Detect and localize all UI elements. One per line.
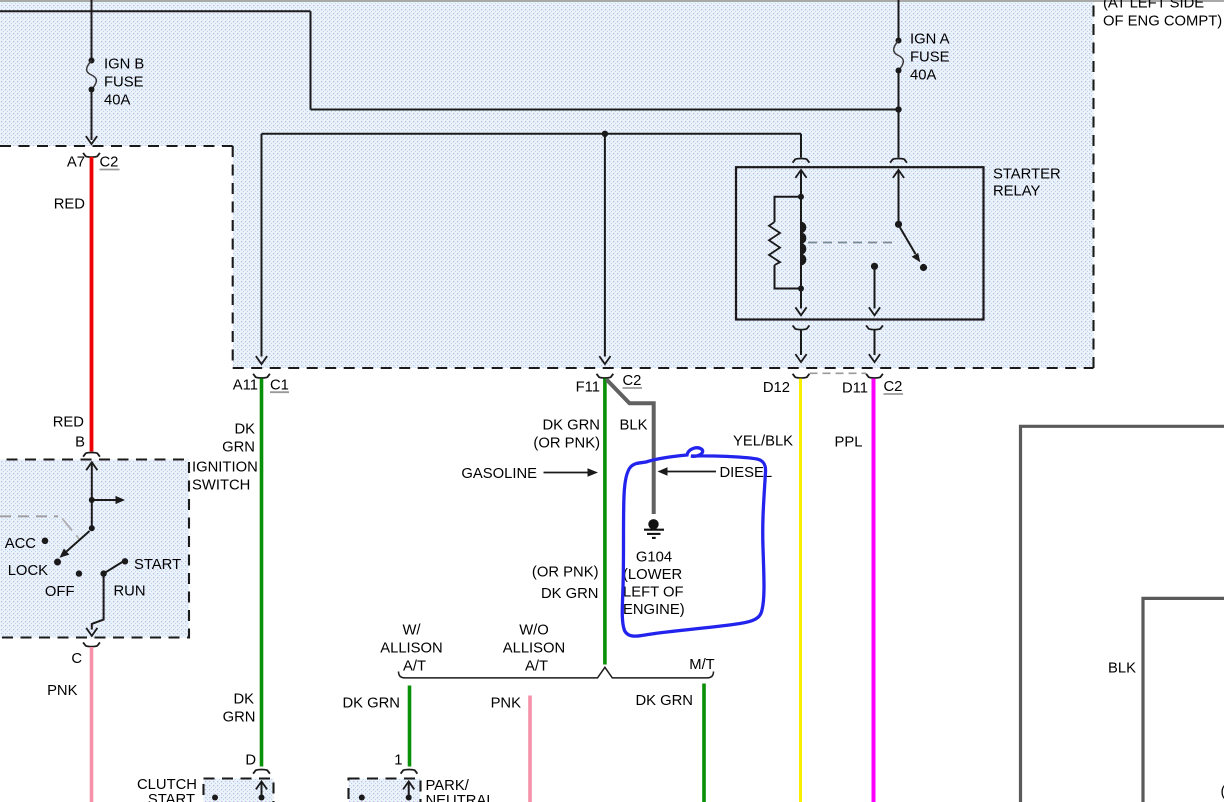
svg-text:RED: RED bbox=[53, 415, 84, 431]
relay bottom connector D12 side bbox=[793, 325, 810, 329]
svg-text:DK GRN: DK GRN bbox=[542, 418, 600, 434]
svg-text:STARTER: STARTER bbox=[993, 167, 1061, 183]
svg-text:FUSE: FUSE bbox=[910, 50, 950, 66]
svg-text:A/T: A/T bbox=[403, 659, 426, 675]
wire DK GRN branch (M/T) bbox=[702, 684, 706, 802]
svg-text:DK: DK bbox=[234, 422, 255, 438]
svg-text:ACC: ACC bbox=[5, 536, 37, 552]
wire YEL from D12 down bbox=[799, 379, 802, 802]
connector A11 C1 bbox=[253, 374, 270, 378]
svg-text:IGN B: IGN B bbox=[104, 57, 144, 73]
svg-text:ENGINE): ENGINE) bbox=[623, 602, 685, 618]
svg-text:B: B bbox=[75, 435, 85, 451]
feed arrow to accessories bbox=[92, 499, 116, 501]
fuse IGN A FUSE 40A bbox=[894, 32, 950, 84]
wire: drop to A11 bbox=[261, 134, 263, 357]
branch brace bbox=[399, 667, 714, 678]
wire: IGN B feed from top bbox=[91, 0, 93, 61]
svg-text:D11: D11 bbox=[842, 381, 868, 397]
svg-text:(OR PNK): (OR PNK) bbox=[532, 565, 599, 581]
svg-text:IGN A: IGN A bbox=[910, 32, 950, 48]
wire: IGN A feed from top bbox=[898, 0, 900, 41]
junction F11 drop bbox=[602, 131, 608, 137]
svg-text:START: START bbox=[134, 557, 181, 573]
connector A7 C2 bbox=[83, 153, 100, 157]
svg-text:CLUTCH: CLUTCH bbox=[137, 777, 197, 793]
component box outline right bbox=[1021, 426, 1224, 802]
underhood fuse block interior fill bbox=[0, 0, 1094, 368]
connector D11 C2 bbox=[866, 374, 883, 378]
wire RED A7 to ignition switch B bbox=[90, 157, 94, 452]
svg-text:(LOWER: (LOWER bbox=[623, 567, 682, 583]
relay actuation dashed link bbox=[808, 242, 894, 244]
rotor pivot bbox=[89, 525, 95, 531]
svg-text:ALLISON: ALLISON bbox=[380, 641, 443, 657]
svg-text:GASOLINE: GASOLINE bbox=[461, 466, 537, 482]
connector into relay, switch pin bbox=[890, 159, 907, 163]
svg-text:C2: C2 bbox=[100, 155, 119, 171]
svg-text:C1: C1 bbox=[270, 378, 289, 394]
connector D12 bbox=[793, 374, 810, 378]
top edge line bbox=[0, 0, 1224, 2]
clutch start switch box bbox=[204, 779, 274, 802]
relay switch pin arrow (into box) bbox=[893, 170, 904, 178]
ignition switch internals bbox=[0, 462, 181, 636]
position contacts bbox=[42, 538, 49, 545]
relay bottom connector D11 side bbox=[866, 325, 883, 329]
wire: bus y=109.5 to IGN A bbox=[311, 109, 899, 111]
svg-text:M/T: M/T bbox=[689, 657, 714, 673]
svg-text:PNK: PNK bbox=[491, 696, 522, 712]
svg-text:D12: D12 bbox=[763, 380, 790, 396]
resistor (relay coil suppression), parallel branch bbox=[775, 197, 802, 289]
svg-text:IGNITION: IGNITION bbox=[192, 460, 258, 476]
svg-text:(: ( bbox=[1221, 784, 1224, 800]
svg-text:NEUTRAL: NEUTRAL bbox=[426, 793, 495, 802]
wire: IGN B fuse output down to A7 bbox=[91, 90, 93, 141]
input arrow from B bbox=[86, 462, 97, 470]
svg-text:GRN: GRN bbox=[222, 440, 255, 456]
svg-text:(OR PNK): (OR PNK) bbox=[533, 436, 600, 452]
svg-text:40A: 40A bbox=[910, 68, 936, 84]
svg-text:F11: F11 bbox=[576, 380, 600, 396]
label (AT LEFT SIDE / OF ENG COMPT) bbox=[1103, 0, 1222, 30]
svg-text:FUSE: FUSE bbox=[104, 75, 144, 91]
wire: drop to relay coil pin bbox=[800, 134, 802, 158]
svg-text:C: C bbox=[71, 651, 82, 667]
svg-text:START: START bbox=[148, 792, 195, 802]
svg-text:40A: 40A bbox=[104, 93, 130, 109]
ground G104 bbox=[623, 519, 685, 618]
svg-text:DK GRN: DK GRN bbox=[635, 693, 693, 709]
svg-text:OFF: OFF bbox=[45, 584, 75, 600]
junction at IGN A wire bbox=[895, 106, 901, 112]
wire: coil to D12 pin bbox=[800, 289, 802, 309]
svg-text:LEFT OF: LEFT OF bbox=[623, 585, 684, 601]
park/neutral position switch box bbox=[349, 779, 421, 802]
wire: IGN A fuse output down to relay bbox=[898, 71, 900, 158]
wire DK GRN from A11 down to D bbox=[260, 379, 264, 767]
relay switch contact (NO throw) bbox=[920, 264, 927, 271]
svg-text:GRN: GRN bbox=[223, 710, 256, 726]
svg-text:PNK: PNK bbox=[47, 683, 78, 699]
svg-text:LOCK: LOCK bbox=[8, 563, 48, 579]
svg-text:RED: RED bbox=[54, 197, 85, 213]
starter relay interior fill bbox=[736, 167, 984, 319]
gray detent dashes bbox=[0, 515, 58, 517]
svg-text:(AT LEFT SIDE: (AT LEFT SIDE bbox=[1103, 0, 1204, 12]
relay coil pin arrow (into box) bbox=[795, 170, 806, 178]
wire PPL from D11 down bbox=[872, 379, 876, 802]
svg-text:1: 1 bbox=[394, 753, 402, 769]
relay coil (bumps) bbox=[801, 222, 806, 265]
blue pen annotation around G104 bbox=[622, 448, 765, 636]
wire BLK from F11 to ground bbox=[607, 380, 654, 515]
svg-text:DK: DK bbox=[233, 692, 254, 708]
svg-text:OF ENG COMPT): OF ENG COMPT) bbox=[1103, 14, 1222, 30]
rotor arm toward LOCK bbox=[67, 531, 90, 552]
svg-text:BLK: BLK bbox=[620, 418, 648, 434]
wire PNK from C down bbox=[90, 647, 94, 802]
svg-text:RELAY: RELAY bbox=[993, 184, 1041, 200]
svg-text:PARK/: PARK/ bbox=[426, 778, 470, 794]
wire DK GRN branch (W/ Allison) bbox=[408, 686, 412, 767]
svg-text:SWITCH: SWITCH bbox=[192, 478, 250, 494]
relay switch arm bbox=[900, 228, 916, 255]
wire: top bus y=11 bbox=[0, 10, 311, 12]
svg-text:W/O: W/O bbox=[519, 623, 549, 639]
wire: coil feed bus y=133.8 bbox=[262, 133, 802, 135]
svg-text:RUN: RUN bbox=[114, 584, 146, 600]
svg-text:ALLISON: ALLISON bbox=[503, 641, 566, 657]
wire DK GRN (OR PNK) from F11 down bbox=[603, 379, 607, 665]
relay output contact to D11 bbox=[871, 263, 878, 270]
svg-text:YEL/BLK: YEL/BLK bbox=[733, 434, 793, 450]
relay switch pivot bbox=[895, 221, 902, 228]
svg-text:DK GRN: DK GRN bbox=[342, 696, 400, 712]
dashed connector tie D12-D11 bbox=[810, 372, 867, 374]
svg-text:A/T: A/T bbox=[525, 659, 548, 675]
wire: drop to F11 bbox=[604, 134, 606, 357]
svg-text:A7: A7 bbox=[67, 155, 85, 171]
inner component box outline right bbox=[1143, 598, 1224, 802]
connector C bbox=[83, 642, 100, 646]
wire: drop x=310.5 bbox=[310, 11, 312, 109]
fuse IGN B FUSE 40A bbox=[87, 57, 145, 109]
connector into relay, coil pin bbox=[793, 159, 810, 163]
connector F11 C2 bbox=[597, 374, 614, 378]
svg-text:C2: C2 bbox=[623, 373, 642, 389]
svg-text:D: D bbox=[245, 753, 256, 769]
svg-text:A11: A11 bbox=[233, 378, 258, 394]
svg-text:W/: W/ bbox=[402, 623, 421, 639]
svg-text:DK GRN: DK GRN bbox=[541, 586, 599, 602]
underhood fuse block dashed border bbox=[0, 0, 1094, 368]
START-RUN link and output to C bbox=[92, 561, 125, 630]
svg-text:PPL: PPL bbox=[835, 435, 863, 451]
wire PNK branch (W/O Allison) bbox=[528, 696, 532, 802]
svg-text:G104: G104 bbox=[636, 550, 672, 566]
starter relay label bbox=[993, 167, 1061, 200]
svg-text:C2: C2 bbox=[884, 379, 903, 395]
ignition switch box bbox=[0, 460, 189, 638]
svg-text:BLK: BLK bbox=[1108, 661, 1136, 677]
connector B into ignition switch bbox=[83, 453, 100, 457]
